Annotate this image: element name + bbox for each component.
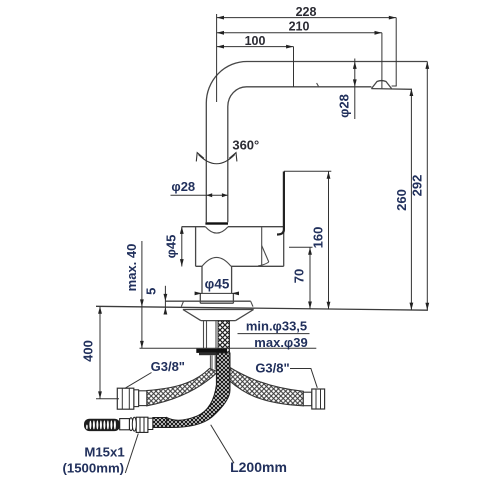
spray hose braid patch before connector [153,418,167,428]
extension 228 right [395,18,397,87]
under-counter seal cone [183,310,254,321]
svg-text:φ28: φ28 [171,179,195,194]
lever handle [277,172,284,235]
svg-text:(1500mm): (1500mm) [63,461,125,476]
cap bottom curve [258,262,269,266]
spray head right ledge [392,85,397,87]
right G3/8 nut [312,389,325,409]
400 arrows [98,306,102,313]
svg-text:φ28: φ28 [337,94,352,118]
svg-text:260: 260 [394,189,409,211]
svg-text:360°: 360° [232,138,259,153]
extension 210 right [381,33,383,89]
max40 arrows [140,299,144,306]
svg-text:228: 228 [296,5,317,19]
5 arrows [164,294,168,301]
threaded shank [218,321,230,371]
spray head bottom line [371,88,411,91]
shank tube walls [204,321,217,349]
body collar arc [205,227,228,233]
svg-text:400: 400 [81,340,96,362]
360 swivel arc [198,155,234,164]
arrowheads [98,16,429,399]
riser centre extension line [216,14,218,102]
svg-text:292: 292 [410,175,425,197]
dim line 160 [328,171,330,309]
max40 / maxphi39 leader line [140,347,317,349]
connector collar [148,418,153,429]
dim line max40 [141,241,143,348]
corrugated hose section [84,419,120,431]
cartridge cap line [261,227,263,267]
dim line 160 extension [284,170,331,172]
dim line 228 [217,17,397,19]
svg-text:70: 70 [291,269,306,283]
G3/8 left leader [125,373,152,389]
body left edge [195,227,197,267]
left G3/8 nut [117,388,134,409]
spray head seam tick [317,83,319,87]
svg-text:5: 5 [143,288,158,295]
svg-text:φ45: φ45 [205,277,230,292]
L200mm leader [211,425,234,464]
riser-body seam [205,222,228,224]
spout riser tube [206,103,228,222]
260 arrows [410,89,414,96]
left hose crimp sleeve [139,391,147,406]
neck dome arch [202,257,231,266]
svg-text:G3/8": G3/8" [151,359,185,374]
left hose ring [134,390,139,407]
400 bottom extension [96,398,119,400]
210 arrows [217,31,224,35]
160 arrows [327,171,331,178]
base ring [200,293,233,303]
svg-text:max. 40: max. 40 [124,244,139,292]
svg-text:160: 160 [310,227,325,249]
dim line 70 [309,247,311,309]
phi28 left arrows [206,193,212,197]
dim line 210 [217,32,382,34]
white sleeve [120,419,130,430]
right supply hose [226,366,303,406]
292 arrows [425,62,429,69]
M15x1 leader [125,434,138,474]
body right edge [283,227,285,267]
tailpiece below nut [210,355,217,369]
connector rings [129,418,133,431]
spray hose [167,353,230,428]
dim line 100 [217,46,294,48]
svg-text:210: 210 [289,20,310,34]
base plate sides [181,301,253,306]
cap diagonal [262,246,269,262]
svg-text:G3/8": G3/8" [255,361,289,376]
svg-text:max.φ39: max.φ39 [254,335,307,350]
body top edge [182,226,284,228]
phi45 left arrows [180,227,184,234]
dim line phi28 right [354,59,356,120]
dim line 292 [426,62,428,311]
svg-text:min.φ33,5: min.φ33,5 [246,319,307,334]
phi28 left leader [171,194,228,196]
228 arrows [217,16,224,20]
base plate top [165,300,250,302]
spout elbow [206,62,247,107]
extension 100 right [293,47,295,87]
body bottom edge [196,265,284,267]
svg-text:100: 100 [245,34,266,48]
dim line phi45 left [181,227,183,267]
countertop line [96,306,428,310]
svg-text:L200mm: L200mm [230,459,287,475]
dim line 400 [99,306,101,399]
left supply hose [147,369,218,406]
70 arrows [308,247,312,254]
M15 hex nut [136,417,148,432]
spout horizontal tube top edge [247,61,427,63]
min phi33.5 leader [238,333,310,335]
dim line 260 [410,89,412,310]
dim line 70 extension [289,246,313,248]
spray head dome [371,81,391,89]
spout horizontal tube bottom edge [247,86,372,88]
backnut [196,349,227,353]
svg-text:φ45: φ45 [163,235,178,259]
G3/8 right leader [290,369,317,388]
svg-text:M15x1: M15x1 [84,444,124,459]
dim line 5 [164,286,166,314]
dim line phi45 bottom [196,292,237,294]
phi45 bottom arrows [195,292,202,296]
right hose crimp sleeve [303,392,312,406]
neck sides [202,266,232,293]
100 arrows [217,45,224,49]
phi28 right arrows [353,62,357,69]
